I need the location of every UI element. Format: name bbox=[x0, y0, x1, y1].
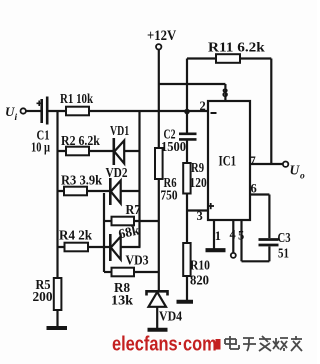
svg-text:C3: C3 bbox=[278, 230, 291, 246]
svg-text:VD4: VD4 bbox=[159, 309, 183, 324]
svg-text:750: 750 bbox=[161, 188, 178, 203]
svg-text:R4 2k: R4 2k bbox=[59, 227, 93, 242]
svg-text:6: 6 bbox=[251, 182, 257, 196]
svg-text:10 µ: 10 µ bbox=[31, 139, 50, 155]
svg-text:4: 4 bbox=[230, 228, 237, 242]
svg-text:2: 2 bbox=[200, 99, 206, 113]
svg-text:+12V: +12V bbox=[147, 28, 176, 44]
svg-text:U: U bbox=[290, 163, 301, 178]
svg-text:1: 1 bbox=[215, 229, 221, 243]
svg-text:R11 6.2k: R11 6.2k bbox=[208, 40, 265, 55]
svg-text:VD3: VD3 bbox=[126, 253, 149, 268]
svg-text:120: 120 bbox=[190, 175, 207, 190]
svg-text:R9: R9 bbox=[191, 160, 204, 176]
svg-text:R3 3.9k: R3 3.9k bbox=[61, 172, 103, 188]
svg-text:200: 200 bbox=[33, 289, 53, 304]
svg-text:68k: 68k bbox=[117, 222, 141, 241]
svg-text:elecfans·com: elecfans·com bbox=[112, 332, 217, 355]
svg-text:R10: R10 bbox=[190, 258, 210, 273]
svg-text:VD2: VD2 bbox=[106, 165, 128, 180]
svg-text:i: i bbox=[15, 113, 18, 123]
svg-text:U: U bbox=[5, 104, 15, 119]
svg-text:51: 51 bbox=[278, 245, 289, 260]
svg-text:1500: 1500 bbox=[161, 139, 187, 155]
svg-text:5: 5 bbox=[238, 229, 244, 243]
svg-text:R1 10k: R1 10k bbox=[60, 91, 93, 106]
svg-text:8: 8 bbox=[222, 86, 228, 100]
svg-text:R7: R7 bbox=[126, 202, 142, 217]
svg-text:o: o bbox=[300, 172, 305, 182]
svg-text:IC1: IC1 bbox=[219, 152, 237, 169]
svg-text:3: 3 bbox=[197, 209, 203, 223]
svg-text:R2 6.2k: R2 6.2k bbox=[61, 133, 101, 148]
svg-text:VD1: VD1 bbox=[110, 122, 129, 138]
svg-text:7: 7 bbox=[250, 154, 256, 168]
svg-text:13k: 13k bbox=[111, 293, 133, 308]
svg-text:820: 820 bbox=[190, 272, 209, 287]
